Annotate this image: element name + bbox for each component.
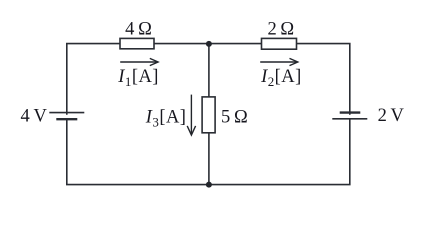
battery B1 4V short plate: [56, 118, 77, 120]
battery B2 2V long plate: [332, 118, 367, 120]
svg-text:I2[A]: I2[A]: [260, 67, 302, 89]
node A top junction dot: [206, 41, 212, 47]
svg-text:2 V: 2 V: [378, 106, 405, 126]
current arrow I1: [120, 58, 158, 65]
resistor R3 5ohm box: [202, 97, 215, 133]
svg-text:4 V: 4 V: [21, 107, 48, 127]
node B bottom junction dot: [206, 182, 212, 188]
wire: battery B2 to bottom-right corner: [209, 119, 350, 185]
wire: bottom-left segment: [67, 119, 209, 184]
svg-text:I3[A]: I3[A]: [145, 107, 187, 129]
wire: R3 down to bottom node B: [208, 133, 210, 185]
current arrow I2: [260, 58, 298, 65]
svg-text:4 Ω: 4 Ω: [125, 20, 152, 40]
wire: node A to R2: [209, 43, 262, 45]
resistor R2 2ohm box: [262, 38, 297, 49]
battery B2 2V short plate: [340, 111, 361, 113]
svg-text:I1[A]: I1[A]: [117, 67, 159, 89]
svg-text:5 Ω: 5 Ω: [221, 108, 248, 128]
wire top-left: corner to R1: [67, 44, 120, 115]
battery B1 4V long plate: [49, 112, 84, 114]
current arrow I3 (downward): [187, 95, 195, 136]
wire: R2 to top-right corner and down to battery B2: [297, 44, 350, 115]
svg-text:2 Ω: 2 Ω: [267, 20, 294, 40]
resistor R1 4ohm box: [120, 38, 154, 48]
wire: R1 to node A: [154, 43, 209, 45]
wire: node A down to R3: [208, 44, 210, 97]
